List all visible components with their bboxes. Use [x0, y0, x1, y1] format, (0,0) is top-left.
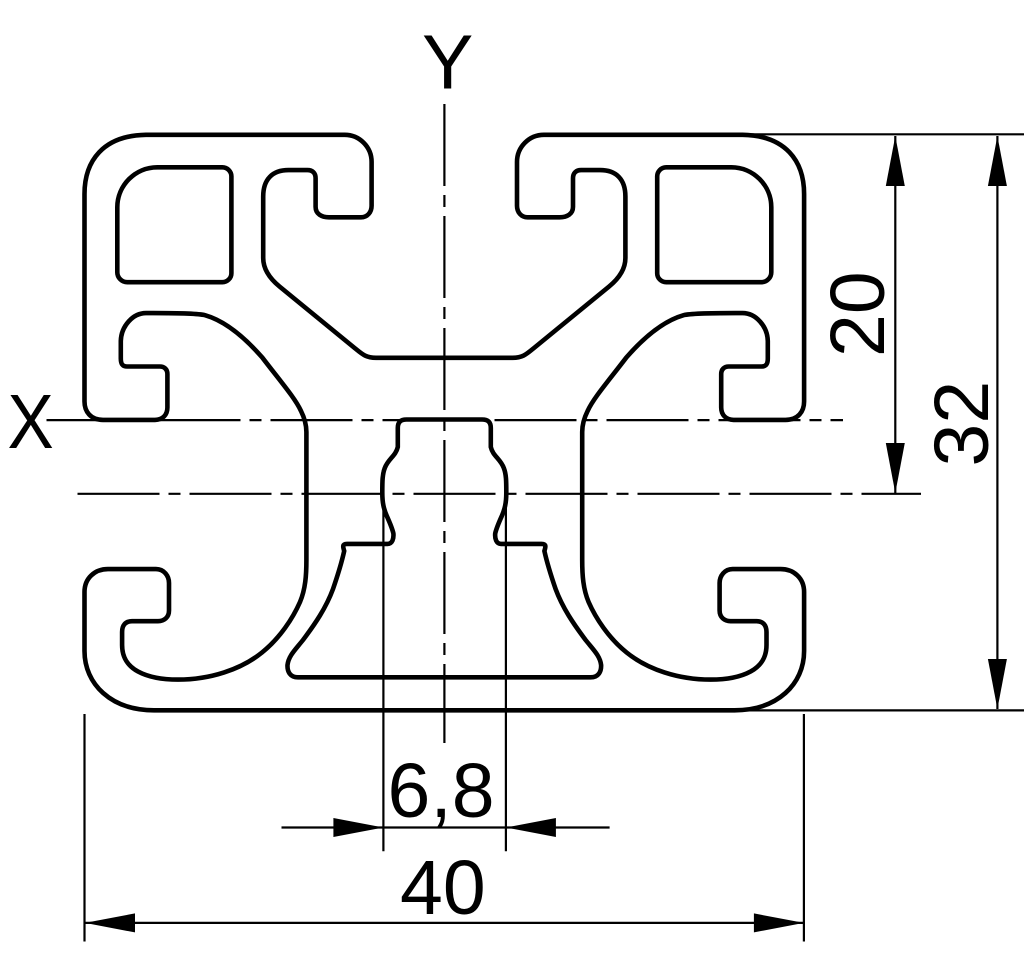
svg-text:6,8: 6,8 — [388, 748, 495, 834]
svg-text:40: 40 — [400, 845, 486, 931]
extension line 6.8 left — [382, 493, 384, 851]
extension line 40 right — [803, 714, 805, 942]
centerline slot plane 20mm — [78, 493, 922, 495]
extension line 40 left — [83, 714, 85, 942]
dimension line 40 — [85, 922, 804, 924]
extension line bottom edge — [740, 709, 1024, 711]
dimension line 6.8 — [282, 826, 610, 828]
extension line 6.8 right — [505, 493, 507, 851]
arrowheads — [886, 136, 905, 186]
closed cavity top-right — [657, 167, 771, 282]
extension line top edge — [745, 133, 1024, 135]
profile outer contour with T-slots — [85, 135, 805, 711]
centerline Y axis — [443, 104, 445, 743]
svg-text:20: 20 — [815, 271, 901, 357]
svg-text:X: X — [8, 379, 54, 465]
dimension line 20 — [894, 136, 896, 493]
central screw-channel cavity — [287, 420, 601, 678]
centerline X axis — [47, 419, 844, 421]
closed cavity top-left — [117, 167, 231, 282]
svg-text:32: 32 — [919, 381, 1005, 467]
dimension line 32 — [996, 136, 998, 709]
svg-text:Y: Y — [422, 20, 473, 106]
